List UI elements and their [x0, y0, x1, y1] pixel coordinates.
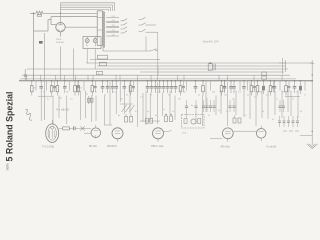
wire drop lamp2 — [94, 49, 96, 70]
wire stub — [119, 81, 121, 91]
coupling cap horiz — [74, 126, 76, 130]
wire drop — [186, 112, 188, 118]
svg-text:0,1: 0,1 — [244, 115, 247, 117]
bus screen line — [97, 65, 286, 67]
if transformer cluster c — [233, 115, 241, 123]
wire V1 grid loop — [34, 20, 52, 32]
svg-text:0,3: 0,3 — [238, 92, 241, 94]
fm box dashed — [182, 115, 205, 129]
link wire b2 — [84, 132, 91, 134]
fuse Si1 — [36, 11, 43, 16]
svg-text:1k: 1k — [34, 88, 36, 90]
wire stub — [209, 81, 211, 91]
wire drop b — [44, 33, 46, 120]
svg-text:Bestell-Nr 1154: Bestell-Nr 1154 — [203, 40, 219, 43]
transformer Tr1 secondary winding — [103, 12, 106, 48]
svg-text:50p: 50p — [212, 92, 215, 94]
svg-text:0,5: 0,5 — [113, 92, 116, 94]
svg-text:0,2: 0,2 — [135, 111, 138, 113]
wire drop — [290, 91, 292, 117]
svg-text:AFu 63a: AFu 63a — [221, 146, 231, 149]
svg-text:70 D: 70 D — [182, 133, 187, 135]
wire drop — [66, 96, 68, 125]
svg-text:5 Roland Spezial: 5 Roland Spezial — [4, 92, 14, 162]
link wire right low — [285, 96, 300, 98]
stamp text — [203, 40, 219, 43]
resistor R10 with parallel capacitor — [220, 80, 226, 95]
tube V6 envelope — [222, 128, 233, 142]
svg-text:50: 50 — [206, 99, 208, 101]
wire stub — [186, 81, 188, 91]
transformer Tr1 primary box — [97, 11, 102, 45]
transformer Tr1 core — [102, 11, 104, 48]
switch end contact — [150, 49, 158, 51]
wire drop — [243, 93, 245, 117]
svg-text:110/240: 110/240 — [56, 42, 65, 44]
junction box 4 — [98, 55, 108, 59]
wire drop — [58, 96, 60, 119]
page margin title 'Seite 5 Roland Spezial' — [4, 92, 14, 171]
bus +HT line — [86, 62, 312, 64]
fm box tube — [184, 119, 201, 125]
wire mains feed top — [30, 12, 97, 14]
svg-text:6D n62: 6D n62 — [89, 145, 97, 148]
svg-text:3n: 3n — [272, 119, 274, 121]
resistor R12 — [256, 80, 259, 95]
wire drop — [119, 91, 121, 103]
svg-text:5p: 5p — [147, 111, 149, 113]
wire stub — [304, 81, 306, 91]
capacitor C16 — [194, 80, 198, 93]
link wire b — [104, 124, 112, 126]
wire drop — [149, 93, 151, 120]
filter cluster — [208, 62, 215, 70]
junction ticks above rail — [27, 75, 282, 81]
junction box 6 — [100, 62, 107, 65]
wire drop — [215, 96, 217, 116]
link wire left — [38, 95, 53, 97]
wire stub — [205, 81, 207, 91]
bus upper rail line — [20, 78, 296, 80]
value labels speckle — [34, 88, 306, 122]
tube V4 envelope — [112, 128, 123, 142]
coupling caps mid — [185, 100, 285, 112]
wire drop c — [60, 47, 62, 81]
wire drop — [40, 93, 42, 121]
resistor R6 with parallel capacitor — [91, 80, 97, 95]
wire drop — [109, 82, 111, 125]
wire drop — [235, 91, 237, 116]
wire drop — [52, 96, 54, 126]
tube V1 rectifier envelope — [56, 23, 65, 32]
wire drop — [123, 93, 125, 114]
resistor R8 with parallel capacitor — [179, 80, 185, 95]
capacitor C4 — [106, 80, 110, 93]
aerial column — [311, 60, 313, 145]
aerial cross — [310, 61, 314, 65]
wire stub — [279, 81, 281, 91]
lamp La1 — [85, 37, 89, 47]
svg-text:0,1: 0,1 — [47, 99, 50, 101]
tube V5 label — [151, 145, 164, 148]
svg-text:5n: 5n — [43, 92, 45, 94]
wire nest outer — [61, 3, 115, 11]
capacitor C10 — [154, 80, 158, 93]
if transformer cluster b — [165, 114, 173, 122]
resistor R3 — [56, 80, 59, 95]
resistor R13 with parallel capacitor — [269, 80, 275, 95]
wire drop — [287, 91, 289, 113]
resistor R11 with parallel capacitor — [250, 80, 256, 95]
bus AVC line — [27, 68, 288, 70]
wire drop — [115, 93, 117, 114]
diode mark — [81, 126, 85, 130]
tube V7 label — [267, 146, 277, 149]
link wire c — [140, 120, 160, 122]
svg-text:F 9 Ω 2/5Ω: F 9 Ω 2/5Ω — [43, 146, 55, 149]
resistor R1 — [31, 80, 34, 95]
svg-text:25p: 25p — [232, 99, 235, 101]
bus end caps right — [279, 58, 286, 74]
wire V1 cathode to transformer — [65, 26, 97, 28]
wire drop — [104, 96, 106, 126]
wire stub — [247, 81, 249, 91]
electrolytic capacitor — [262, 80, 265, 94]
svg-text:1M: 1M — [224, 95, 227, 97]
svg-text:0,1: 0,1 — [140, 97, 143, 99]
wire drop — [162, 93, 164, 116]
capacitor C22 — [293, 80, 297, 93]
resistor R5 — [77, 80, 80, 95]
resistor R4 with parallel capacitor — [74, 80, 80, 95]
link wire e — [283, 130, 299, 132]
wire drop — [297, 91, 299, 119]
wire stub — [137, 81, 139, 91]
aerial mark x — [24, 74, 27, 77]
wire drop — [205, 91, 207, 113]
wire drop — [85, 91, 87, 119]
capacitor C2 — [63, 80, 67, 93]
svg-text:0,5: 0,5 — [70, 99, 73, 101]
node aerial rail — [311, 74, 313, 81]
capacitor C14 — [170, 80, 174, 93]
wire v6 bottom — [210, 138, 222, 140]
wire V1 anode loop — [51, 17, 97, 25]
if transformer cluster a — [125, 114, 133, 122]
wire drop — [255, 91, 257, 127]
capacitor C11 — [158, 80, 162, 93]
resistor R2 with parallel capacitor — [50, 80, 56, 95]
fm box label — [182, 133, 187, 135]
capacitor C18 — [229, 80, 233, 93]
svg-text:8k: 8k — [126, 95, 128, 97]
trimmer pair — [88, 96, 93, 104]
svg-text:1k: 1k — [172, 111, 174, 113]
wire drop — [80, 91, 82, 121]
capacitor C19 — [232, 80, 236, 93]
svg-text:10: 10 — [80, 88, 82, 90]
svg-text:50: 50 — [300, 111, 302, 113]
wire drop — [174, 96, 176, 121]
wire stub — [68, 81, 70, 91]
capacitor C5 — [111, 80, 115, 93]
tube V4 label — [107, 145, 117, 148]
wire drop — [281, 91, 283, 119]
svg-text:Seite: Seite — [5, 163, 9, 170]
svg-text:5k: 5k — [168, 95, 170, 97]
wire drop — [202, 96, 204, 127]
capacitor C6 — [114, 80, 118, 93]
svg-text:6n: 6n — [155, 115, 157, 117]
svg-text:2n: 2n — [163, 109, 165, 111]
link wire d — [234, 130, 257, 132]
wire nest inner — [61, 3, 109, 23]
wire mains drop — [33, 13, 35, 81]
bus heater line — [140, 71, 284, 73]
label mains voltage — [56, 39, 65, 44]
lamp La2 — [93, 37, 97, 47]
grid resistor horizontal — [63, 127, 70, 130]
wire bus stub — [90, 59, 160, 61]
electrolytic capacitor — [299, 80, 302, 94]
svg-text:1n: 1n — [133, 88, 135, 90]
wire drop — [227, 82, 229, 126]
svg-text:3k: 3k — [282, 92, 284, 94]
wire drop — [137, 91, 139, 128]
output caps right — [278, 116, 299, 127]
svg-text:2p: 2p — [208, 115, 210, 117]
wire stub — [35, 81, 37, 91]
wire nest second — [61, 5, 113, 11]
svg-text:2k: 2k — [198, 95, 200, 97]
bus main chassis rail — [19, 80, 313, 82]
svg-text:5n: 5n — [226, 111, 228, 113]
node right col — [300, 131, 313, 136]
wire drop — [157, 82, 159, 124]
tube V5 envelope — [153, 128, 172, 142]
svg-text:Ku uh 80: Ku uh 80 — [267, 146, 277, 149]
wire drop — [195, 112, 197, 124]
if cluster mid — [146, 118, 153, 123]
capacitor C13 — [166, 80, 170, 93]
svg-text:8k: 8k — [262, 111, 264, 113]
resistor R9 — [202, 80, 205, 95]
svg-text:8p: 8p — [191, 105, 193, 107]
svg-text:4u: 4u — [292, 99, 294, 101]
wire bus vert — [157, 66, 159, 75]
capacitor C3 — [101, 80, 105, 93]
volume pot arrows — [120, 104, 135, 112]
junction box 5 — [97, 71, 103, 75]
resistor R7 with parallel capacitor — [129, 80, 135, 95]
capacitor C21 — [273, 80, 277, 93]
svg-text:0,1: 0,1 — [54, 88, 57, 90]
svg-text:10n: 10n — [183, 92, 186, 94]
wire drop — [129, 82, 131, 114]
capacitor C17 — [223, 80, 227, 93]
wire drop — [91, 95, 93, 122]
svg-text:50k: 50k — [59, 98, 62, 100]
svg-text:10n: 10n — [120, 99, 123, 101]
capacitor C20 — [242, 80, 246, 93]
wire drop — [145, 91, 147, 126]
wire drop — [220, 91, 222, 115]
wire drop sw2 — [157, 32, 159, 75]
wire stub — [46, 81, 48, 91]
svg-text:0,1: 0,1 — [158, 92, 161, 94]
wire drop — [249, 82, 251, 119]
terminal block mains — [39, 41, 43, 44]
capacitor C12 — [162, 80, 166, 93]
svg-text:4p: 4p — [118, 115, 120, 117]
decoupler stack — [262, 72, 267, 79]
tube V2 label — [43, 146, 55, 149]
transformer Tr1 taps — [106, 16, 119, 37]
svg-text:3n: 3n — [95, 92, 97, 94]
svg-text:20k: 20k — [259, 92, 262, 94]
svg-text:1n: 1n — [276, 99, 278, 101]
tube V3 label — [89, 145, 97, 148]
svg-text:2k: 2k — [86, 94, 88, 96]
wire drop d — [72, 49, 74, 81]
wire drop — [169, 91, 171, 115]
node junction A — [60, 13, 61, 14]
wire nest middle — [61, 7, 111, 11]
handwritten mark — [26, 109, 33, 120]
tube V2 magic eye envelope — [46, 120, 59, 143]
tube V7 envelope — [256, 126, 266, 142]
capacitor C7 — [123, 80, 127, 93]
svg-text:2M: 2M — [66, 92, 69, 94]
voltage selector S1 contacts A — [121, 19, 128, 33]
capacitor C8 — [146, 80, 150, 93]
svg-text:1n: 1n — [304, 95, 306, 97]
bus cathode line — [22, 74, 290, 76]
wire drop a — [24, 69, 26, 81]
svg-text:5n: 5n — [247, 95, 249, 97]
wire drop — [261, 91, 263, 119]
capacitor C15 — [174, 80, 178, 93]
wire drop — [95, 96, 97, 122]
svg-text:Rb/n90 8: Rb/n90 8 — [107, 145, 117, 148]
earth symbol — [307, 144, 318, 149]
label row mid — [56, 108, 69, 112]
wire drop lamp1 — [86, 49, 88, 64]
wire drop sw — [145, 36, 147, 51]
svg-text:6p: 6p — [218, 110, 220, 112]
dial lamp box — [83, 37, 101, 49]
svg-text:1M: 1M — [178, 99, 181, 101]
wire stub — [83, 81, 85, 91]
link wire a — [59, 127, 91, 129]
resistor R14 with parallel capacitor — [285, 80, 291, 95]
wire drop — [274, 91, 276, 116]
capacitor C1 — [39, 80, 43, 93]
capacitor C9 — [150, 80, 154, 93]
wire transformer bottom — [103, 48, 150, 51]
tube V3 envelope — [91, 125, 101, 139]
wire stub — [239, 81, 241, 91]
wire drop — [267, 91, 269, 120]
wire drop — [142, 93, 144, 122]
wire V1 bottom drop — [60, 32, 62, 37]
svg-text:TBC/n 1.Ea: TBC/n 1.Ea — [151, 145, 164, 148]
tube V6 label — [221, 146, 231, 149]
voltage selector S1 contacts B — [139, 17, 158, 32]
